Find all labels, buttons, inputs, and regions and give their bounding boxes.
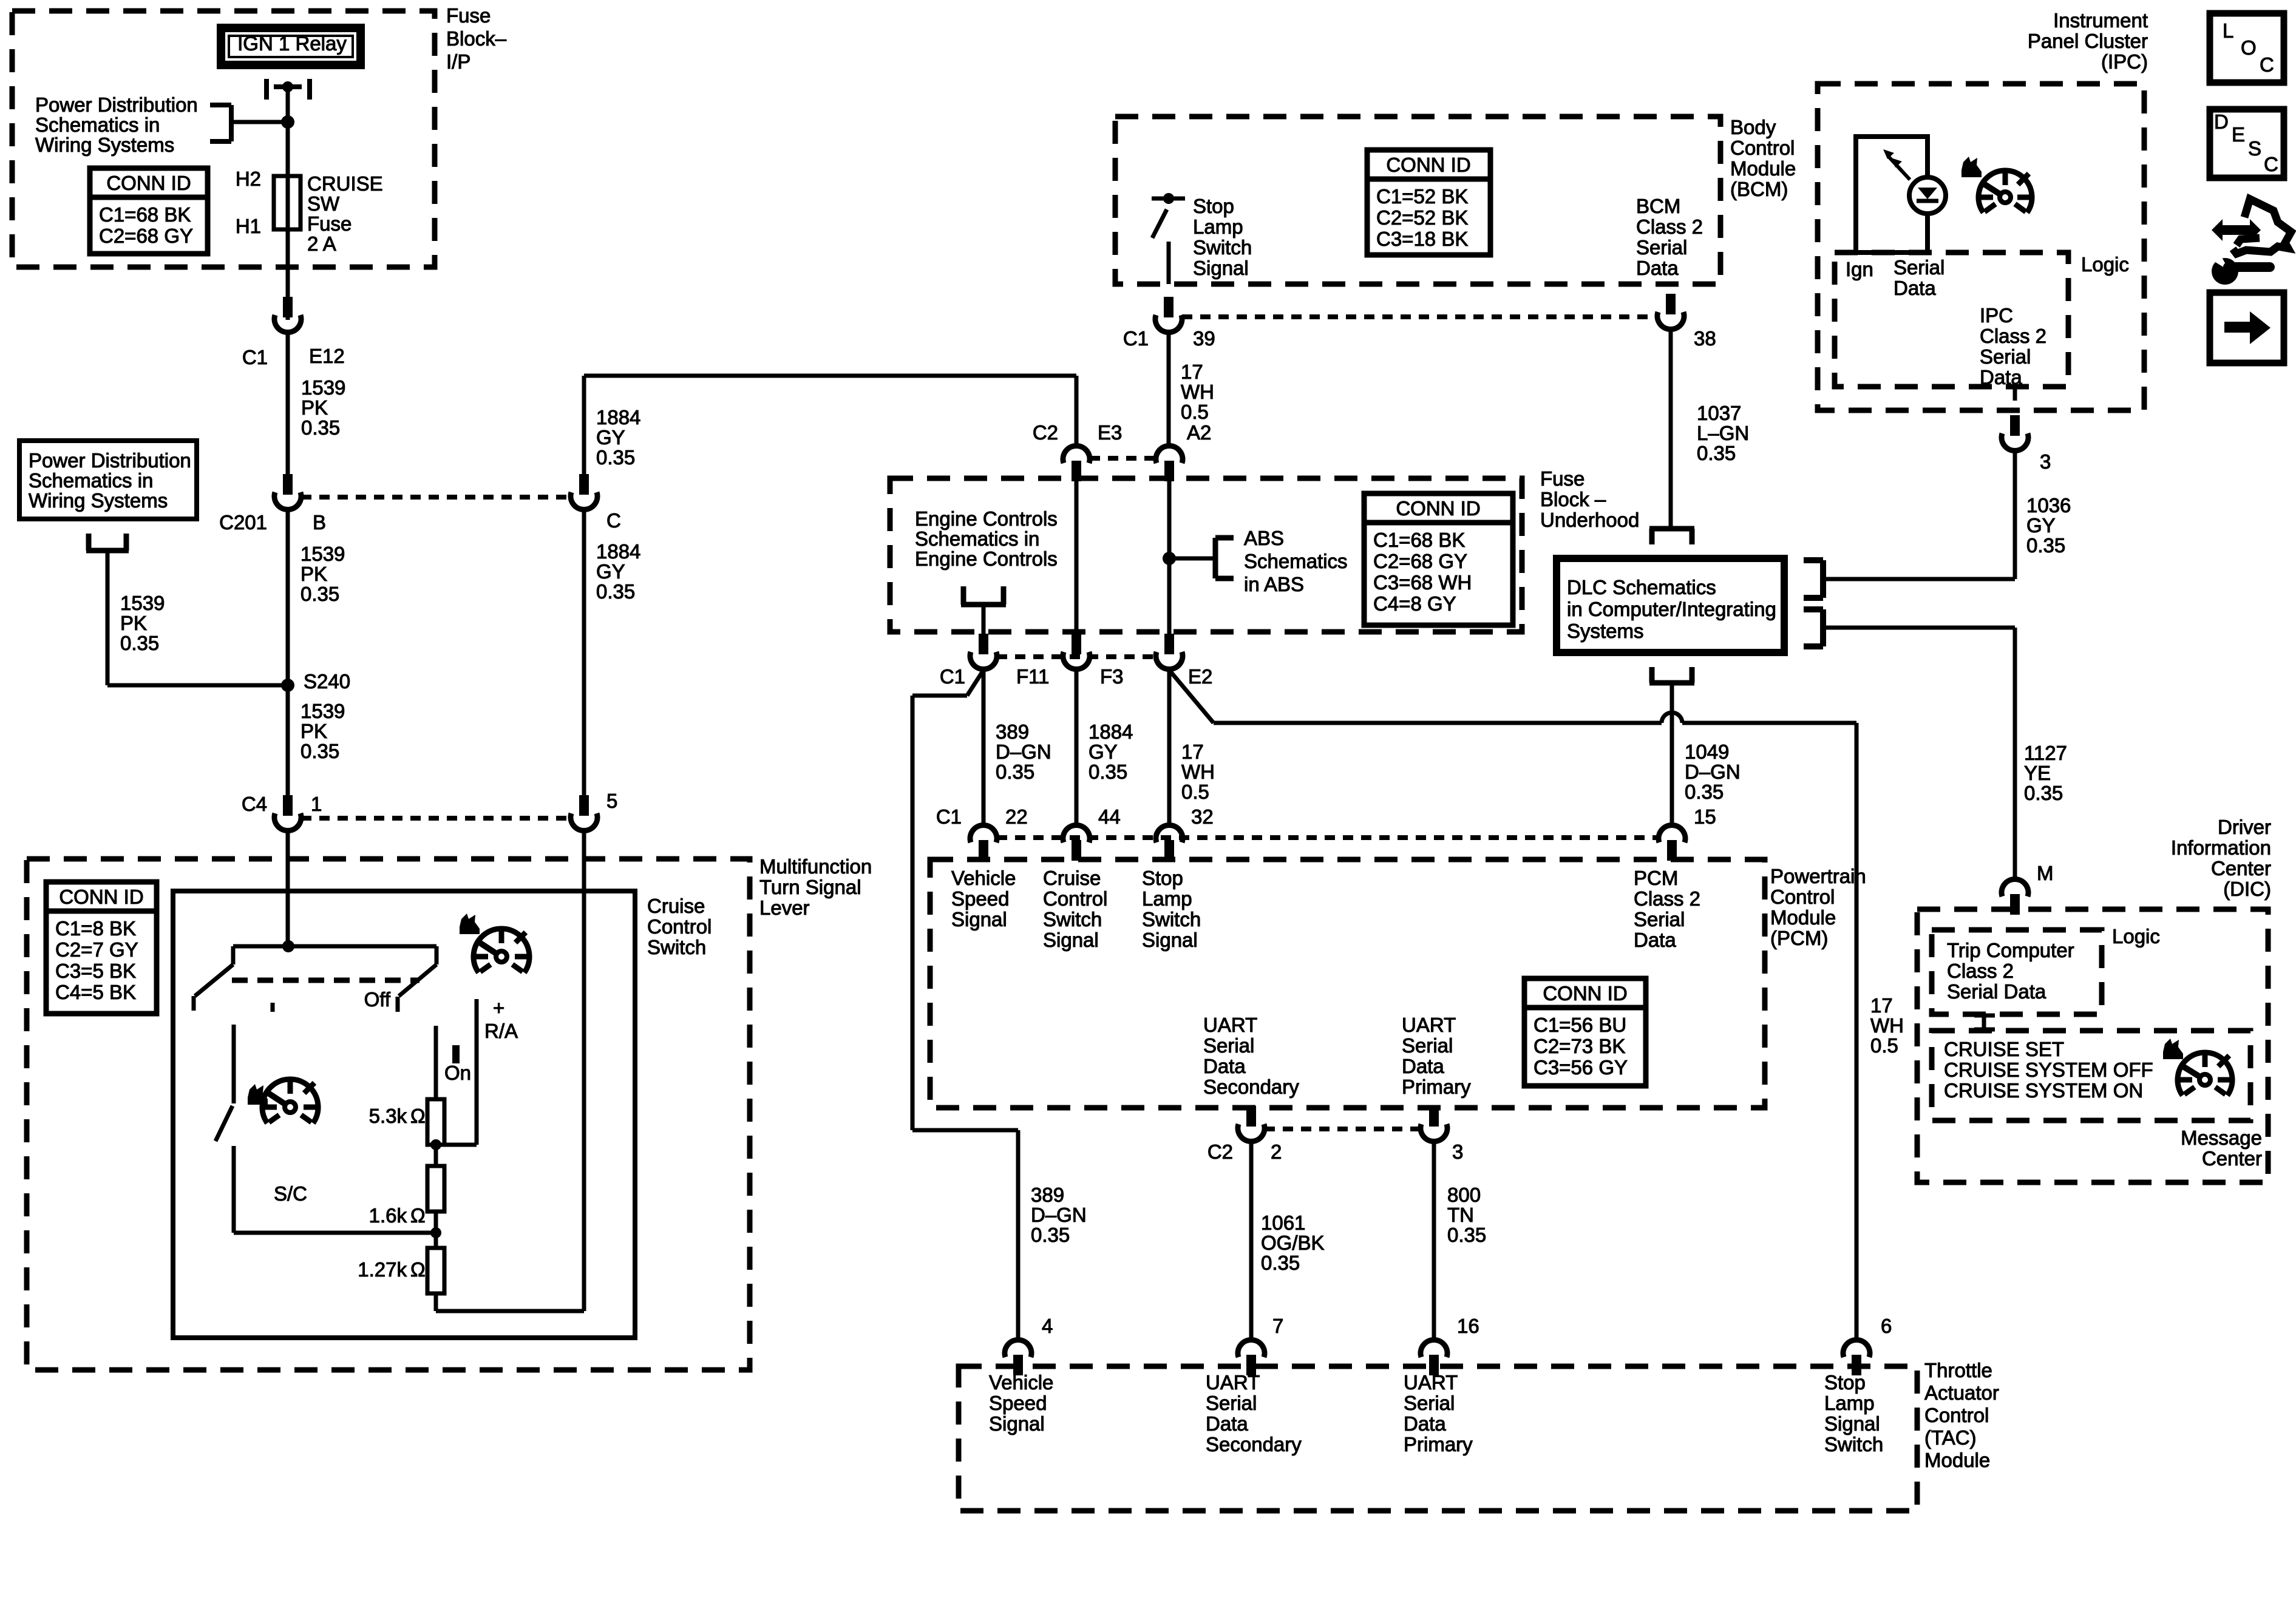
svg-text:F3: F3 [1100, 665, 1124, 688]
svg-text:44: 44 [1098, 805, 1121, 828]
svg-text:3: 3 [1452, 1140, 1463, 1163]
svg-text:Ω: Ω [410, 1105, 426, 1127]
svg-text:C1=52 BKC2=52 BKC3=18 BK: C1=52 BKC2=52 BKC3=18 BK [1376, 185, 1468, 250]
svg-text:38: 38 [1694, 327, 1716, 350]
svg-text:R/A: R/A [484, 1020, 518, 1042]
svg-text:CONN ID: CONN ID [1386, 154, 1470, 176]
svg-text:C201: C201 [219, 511, 267, 534]
svg-text:CruiseControlSwitch: CruiseControlSwitch [647, 895, 712, 958]
svg-text:E2: E2 [1188, 665, 1212, 688]
svg-text:C1=56 BUC2=73 BKC3=56 GY: C1=56 BUC2=73 BKC3=56 GY [1533, 1014, 1628, 1079]
svg-text:Ω: Ω [410, 1258, 426, 1281]
svg-text:Logic: Logic [2081, 253, 2129, 276]
svg-text:C1: C1 [1123, 327, 1149, 350]
svg-text:CONN ID: CONN ID [59, 886, 143, 908]
svg-text:16: 16 [1457, 1315, 1479, 1337]
svg-text:C1=8 BKC2=7 GYC3=5 BKC4=5 BK: C1=8 BKC2=7 GYC3=5 BKC4=5 BK [55, 917, 138, 1003]
svg-text:VehicleSpeedSignal: VehicleSpeedSignal [989, 1371, 1053, 1435]
svg-text:Engine ControlsSchematics inEn: Engine ControlsSchematics inEngine Contr… [915, 507, 1058, 570]
svg-text:1.27k: 1.27k [358, 1258, 407, 1281]
svg-text:C1=68 BKC2=68 GY: C1=68 BKC2=68 GY [99, 203, 193, 247]
svg-text:C: C [2260, 53, 2274, 76]
svg-text:M: M [2037, 862, 2054, 884]
svg-text:E3: E3 [1098, 421, 1122, 444]
svg-text:32: 32 [1191, 805, 1214, 828]
svg-text:22: 22 [1005, 805, 1028, 828]
svg-text:C: C [606, 509, 621, 532]
svg-text:15: 15 [1694, 805, 1716, 828]
svg-text:L: L [2223, 19, 2233, 42]
svg-text:E12: E12 [309, 345, 345, 367]
svg-text:D: D [2214, 110, 2229, 133]
svg-text:1.6k: 1.6k [369, 1204, 407, 1227]
svg-text:6: 6 [1881, 1315, 1892, 1337]
svg-text:On: On [444, 1062, 471, 1084]
svg-text:C2: C2 [1207, 1140, 1233, 1163]
svg-text:A2: A2 [1187, 421, 1211, 444]
svg-text:O: O [2241, 36, 2257, 59]
svg-text:CONN ID: CONN ID [1396, 497, 1480, 520]
svg-text:4: 4 [1042, 1315, 1053, 1337]
svg-text:F11: F11 [1016, 665, 1049, 688]
svg-text:H2: H2 [236, 168, 261, 190]
svg-text:2: 2 [1271, 1140, 1282, 1163]
svg-text:CruiseControlSwitchSignal: CruiseControlSwitchSignal [1043, 867, 1107, 951]
svg-text:Ign: Ign [1846, 258, 1873, 280]
svg-text:Ω: Ω [410, 1204, 426, 1227]
svg-text:Off: Off [364, 988, 391, 1011]
svg-text:3: 3 [2040, 450, 2051, 473]
svg-text:C1: C1 [936, 805, 962, 828]
svg-text:C: C [2264, 153, 2278, 175]
svg-text:39: 39 [1193, 327, 1215, 350]
svg-text:C2: C2 [1033, 421, 1058, 444]
svg-text:H1: H1 [236, 215, 261, 237]
svg-text:5.3k: 5.3k [369, 1105, 407, 1127]
svg-text:CONN ID: CONN ID [106, 172, 191, 194]
svg-text:7: 7 [1272, 1315, 1283, 1337]
svg-text:IGN 1 Relay: IGN 1 Relay [237, 32, 347, 55]
svg-text:VehicleSpeedSignal: VehicleSpeedSignal [951, 867, 1016, 930]
svg-text:C4: C4 [242, 793, 267, 815]
svg-text:E: E [2232, 123, 2245, 146]
svg-text:S/C: S/C [274, 1182, 307, 1205]
svg-text:B: B [313, 511, 326, 534]
svg-text:C1: C1 [940, 665, 965, 688]
svg-text:S240: S240 [304, 670, 350, 693]
svg-text:+: + [493, 997, 504, 1019]
svg-text:5: 5 [606, 790, 617, 812]
svg-text:ThrottleActuatorControl(TAC)Mo: ThrottleActuatorControl(TAC)Module [1924, 1359, 1999, 1471]
svg-text:CONN ID: CONN ID [1543, 982, 1627, 1005]
svg-text:Logic: Logic [2112, 925, 2160, 947]
svg-text:1: 1 [311, 793, 322, 815]
svg-text:C1: C1 [242, 346, 268, 368]
svg-text:S: S [2248, 137, 2261, 160]
